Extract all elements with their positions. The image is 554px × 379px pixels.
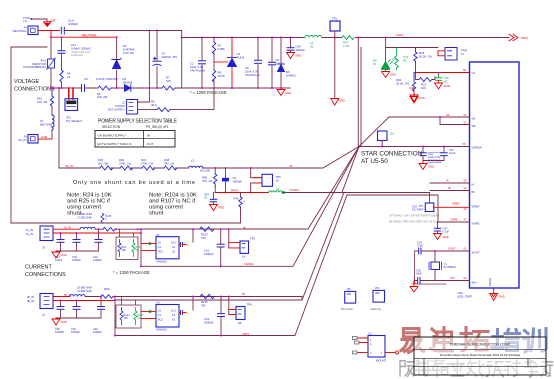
svg-text:C1: C1 — [158, 314, 162, 317]
svg-text:MOUNT: MOUNT — [376, 359, 387, 363]
test point TP5 — [250, 167, 281, 193]
wire star to REFA corner — [342, 147, 359, 193]
svg-text:0: 0 — [106, 218, 108, 221]
capacitor C2 tantalum — [199, 61, 206, 64]
wire R6 path — [138, 88, 214, 110]
svg-text:C2: C2 — [172, 246, 176, 249]
net arrow GNDD — [410, 280, 418, 292]
svg-text:51: 51 — [464, 113, 467, 117]
svg-text:JP3: JP3 — [375, 287, 380, 290]
wire R49 to AGND — [240, 208, 242, 224]
svg-text:1B: 1B — [238, 321, 242, 325]
wire J4 to C14 — [38, 30, 60, 32]
svg-text:VA_IN: VA_IN — [18, 138, 26, 142]
char jia — [541, 359, 552, 376]
net arrow LINE (red) — [44, 22, 52, 27]
wire C44 node — [216, 192, 268, 194]
svg-text:IA: IA — [243, 225, 246, 229]
junction dots PSU — [50, 36, 292, 89]
wire NEUTRAL net — [51, 31, 117, 38]
svg-text:VREF: VREF — [472, 205, 480, 209]
wire VB branch — [440, 117, 470, 125]
svg-text:2: 2 — [370, 343, 372, 346]
svg-text:EXT'al SUPPLY THRU J1: EXT'al SUPPLY THRU J1 — [98, 142, 133, 146]
wire J5 second — [53, 232, 141, 234]
resistor R2 — [212, 42, 215, 54]
svg-text:+5: +5 — [67, 75, 71, 79]
svg-text:100pF: 100pF — [55, 258, 63, 262]
svg-text:TANTALUM: TANTALUM — [190, 69, 205, 73]
svg-text:R49: R49 — [234, 197, 239, 201]
watermark line1 char di — [431, 328, 453, 351]
svg-text:TANTALUM: TANTALUM — [245, 73, 260, 77]
shunt box A R24 R25 — [116, 229, 141, 259]
svg-text:GAINADJ: GAINADJ — [156, 260, 168, 263]
watermark line1 char tuo — [461, 328, 488, 351]
svg-text:Powerline Meter Demo Board Sch: Powerline Meter Demo Board Schematic 652… — [440, 353, 521, 357]
wire U1 output caps — [181, 243, 183, 247]
svg-text:20.0K, 1%: 20.0K, 1% — [396, 82, 409, 86]
svg-text:XIN: XIN — [450, 276, 455, 280]
svg-text:1A: 1A — [242, 255, 246, 259]
svg-text:NC: NC — [444, 80, 448, 84]
svg-text:L8 680 OHM: L8 680 OHM — [77, 286, 92, 290]
jumper JP1 — [65, 88, 82, 123]
wire rail to VIN — [356, 37, 510, 39]
svg-text:VA: VA — [289, 164, 293, 168]
wire JP1 to divider — [58, 88, 60, 168]
svg-text:L6 680 OHM: L6 680 OHM — [77, 212, 92, 216]
wire VA from star — [359, 117, 470, 147]
capacitor C19 — [95, 228, 102, 251]
wire to V1 pin — [416, 72, 470, 74]
wire to band A — [115, 228, 141, 230]
band A left edge — [140, 229, 142, 266]
svg-text:VSPE: VSPE — [472, 222, 480, 226]
svg-text:V3P3: V3P3 — [242, 332, 249, 336]
capacitor C49 — [415, 269, 423, 284]
svg-text:SELECTION: SELECTION — [102, 125, 121, 129]
svg-text:SN_LINE: SN_LINE — [200, 170, 210, 173]
ground C40 — [287, 50, 295, 58]
svg-text:R116: R116 — [104, 288, 110, 291]
wire R50 branch — [214, 168, 216, 193]
svg-text:18.2K, 1%: 18.2K, 1% — [419, 55, 432, 59]
svg-text:Reminder: Reminder — [341, 307, 353, 311]
capacitor C40 — [287, 48, 294, 51]
wire C4T branch — [257, 38, 259, 89]
wire diagonal to IB band bottom — [115, 195, 347, 336]
svg-text:VOLTAGE: VOLTAGE — [14, 79, 39, 85]
svg-text:GAINADJ: GAINADJ — [156, 329, 168, 332]
svg-text:750: 750 — [201, 236, 206, 240]
wire U1 inputs — [141, 244, 156, 251]
ground arrow IC — [490, 294, 498, 301]
jumper JP3 — [371, 287, 385, 311]
svg-text:IB: IB — [448, 186, 451, 190]
inductor L8 — [70, 295, 85, 297]
ground R30 — [410, 95, 418, 102]
resistor R115 — [101, 214, 104, 223]
diode D6 — [278, 64, 285, 72]
resistor R4 — [60, 70, 63, 82]
svg-text:TP1: TP1 — [332, 17, 338, 21]
wire REFA row — [215, 192, 345, 194]
junction rail x52 x59 — [51, 87, 60, 89]
wire cap bottoms B — [56, 317, 101, 319]
capacitor C8 — [269, 62, 276, 65]
svg-text:NEUTRAL: NEUTRAL — [12, 29, 26, 33]
svg-text:A1: A1 — [158, 242, 162, 245]
ground LED — [385, 70, 387, 72]
svg-text:NC: NC — [412, 208, 416, 212]
svg-text:A1: A1 — [158, 310, 162, 313]
svg-text:NC: NC — [403, 59, 407, 63]
svg-text:LINE: LINE — [49, 19, 56, 23]
svg-text:V3P3: V3P3 — [409, 86, 416, 90]
svg-text:GND: GND — [499, 295, 505, 299]
svg-text:PS_SEL(0) uP1: PS_SEL(0) uP1 — [146, 125, 169, 129]
char she2 — [486, 362, 503, 377]
svg-text:VREF: VREF — [417, 207, 424, 211]
char ji — [506, 360, 520, 376]
wire XOUT pin — [428, 250, 470, 252]
svg-text:PS_SELECT: PS_SELECT — [66, 119, 82, 123]
svg-text:1N4148: 1N4148 — [123, 80, 133, 84]
svg-text:0.47uF, 1000VDC: 0.47uF, 1000VDC — [96, 77, 118, 81]
svg-text:0.1uF: 0.1uF — [443, 230, 450, 234]
svg-text:AC1: AC1 — [171, 242, 176, 245]
wire band B top — [113, 297, 302, 301]
wire C2 branch — [201, 38, 203, 89]
svg-text:V1: V1 — [461, 52, 465, 56]
wire C12 branch — [61, 37, 63, 88]
svg-text:NC: NC — [310, 45, 314, 49]
svg-text:55: 55 — [463, 142, 466, 146]
svg-text:IA: IA — [472, 183, 475, 187]
svg-text:4: 4 — [381, 352, 383, 355]
LED D9 (green) — [382, 60, 393, 70]
watermark line1 char yi — [401, 329, 424, 353]
svg-text:J11: J11 — [368, 332, 372, 335]
title block overlay — [414, 337, 546, 375]
svg-text:IA: IA — [446, 179, 449, 183]
svg-text:V3P3: V3P3 — [396, 33, 404, 37]
svg-text:1000pF: 1000pF — [93, 258, 102, 262]
test point TP6 — [228, 296, 252, 325]
svg-text:0.1uF: 0.1uF — [276, 62, 283, 66]
svg-text:VREF: VREF — [452, 202, 460, 206]
inductor L5 — [52, 108, 54, 139]
resistor R46 — [120, 166, 133, 170]
capacitor C9 — [222, 167, 229, 193]
svg-text:V1: V1 — [373, 62, 377, 66]
note R24 — [67, 193, 112, 217]
title block — [414, 337, 546, 375]
svg-text:C2: C2 — [172, 314, 176, 317]
svg-text:61: 61 — [464, 247, 467, 251]
svg-text:20.5K: 20.5K — [218, 74, 225, 78]
svg-text:AC2: AC2 — [158, 251, 163, 254]
svg-text:TP2: TP2 — [250, 237, 256, 241]
capacitor C14 — [61, 27, 64, 34]
resistor R7 — [162, 86, 175, 90]
wire IC ground pin — [493, 288, 495, 293]
wire D2 branch — [116, 37, 118, 88]
varistor RV1 — [23, 58, 56, 70]
wire star vertical pair — [357, 38, 359, 147]
svg-text:CURRENT: CURRENT — [25, 265, 53, 271]
wire LED branch — [386, 38, 438, 62]
svg-text:REFA: REFA — [231, 188, 238, 192]
svg-text:32.768kHz: 32.768kHz — [444, 265, 457, 269]
svg-text:1000pF: 1000pF — [233, 180, 243, 184]
annotation box left — [11, 47, 47, 223]
inductor L4 (NC, green) — [304, 35, 323, 37]
svg-text:AUV331MBB1X10: AUV331MBB1X10 — [23, 65, 46, 69]
svg-text:VA: VA — [446, 113, 450, 117]
svg-text:ON BOARD SUPPLY: ON BOARD SUPPLY — [98, 134, 126, 138]
svg-text:6521-TQFP: 6521-TQFP — [458, 295, 473, 299]
resistor R116 — [101, 295, 113, 299]
wire star vertical 2 — [360, 48, 362, 147]
svg-text:TP: TP — [23, 20, 27, 24]
capacitor C26 (green NC) — [435, 73, 441, 80]
wire band A feedback vertical — [192, 229, 194, 242]
svg-text:1N4001: 1N4001 — [286, 74, 296, 78]
resistor R79 (NC, green) — [342, 36, 354, 40]
svg-text:1000pF: 1000pF — [68, 22, 78, 26]
svg-text:V1: V1 — [472, 71, 476, 75]
wire J5 top — [53, 228, 80, 230]
wire C8 branch — [271, 38, 273, 89]
svg-text:Only one shunt can be used at: Only one shunt can be used at a time — [73, 180, 195, 186]
svg-text:GND: GND — [285, 91, 291, 95]
svg-text:VB: VB — [472, 124, 476, 128]
svg-text:GNDA: GNDA — [488, 278, 492, 286]
char he — [432, 360, 448, 376]
svg-text:XOUT: XOUT — [472, 251, 481, 255]
svg-text:J5: J5 — [42, 246, 45, 250]
svg-text:shunt: shunt — [149, 211, 164, 217]
char zhuan — [524, 359, 537, 377]
ground symbol mid — [331, 99, 339, 106]
svg-text:750, 1%: 750, 1% — [202, 179, 213, 183]
resistor R106 — [200, 294, 214, 298]
svg-text:6.98K: 6.98K — [218, 47, 225, 51]
resistor R22 — [103, 227, 115, 231]
capacitor C46 — [98, 296, 105, 319]
svg-text:100, 2W: 100, 2W — [97, 95, 108, 99]
svg-text:33pF: 33pF — [416, 272, 422, 276]
svg-text:261, 1W: 261, 1W — [98, 161, 109, 165]
op-amp U3 — [156, 301, 179, 332]
svg-text:49.9: 49.9 — [151, 103, 157, 107]
svg-text:390, 1%: 390, 1% — [164, 161, 175, 165]
capacitor C48 — [415, 241, 429, 255]
wire C14 to corner x181 — [64, 31, 181, 89]
wire bottom PSU rail — [51, 87, 290, 89]
capacitor C10 — [217, 228, 224, 267]
svg-text:10K: 10K — [421, 86, 426, 90]
wire J6 to L5 — [38, 138, 52, 140]
net arrow VIN — [509, 34, 518, 41]
svg-text:L9: L9 — [276, 187, 279, 191]
zener D2 — [112, 58, 121, 68]
resistor R103 — [200, 227, 214, 231]
resistor R49 — [234, 193, 246, 209]
capacitor C36 — [57, 300, 64, 319]
svg-text:750: 750 — [201, 304, 206, 308]
shunt box B R104 R107 — [116, 297, 144, 329]
svg-text:V3P3: V3P3 — [521, 36, 529, 40]
svg-text:1000pF: 1000pF — [204, 252, 214, 256]
wire J1 feed vertical — [138, 31, 150, 103]
svg-text:100, 2W: 100, 2W — [37, 100, 48, 104]
op-amp U1 — [156, 233, 179, 263]
net arrow V3P3 top-right — [410, 90, 418, 103]
wire after L8 — [85, 296, 101, 298]
svg-text:1000PF: 1000PF — [55, 330, 65, 334]
svg-text:TP6: TP6 — [247, 303, 253, 307]
svg-text:3: 3 — [370, 352, 372, 355]
char xian — [467, 360, 484, 376]
jumper JP2 — [341, 288, 356, 311]
svg-text:6.8V 1W: 6.8V 1W — [123, 51, 134, 55]
svg-text:NC: NC — [136, 249, 140, 252]
svg-text:* = 1206 PACKAGE: * = 1206 PACKAGE — [190, 90, 227, 95]
svg-text:100: 100 — [166, 79, 171, 83]
svg-text:1000pF: 1000pF — [71, 330, 80, 334]
svg-text:JP2: JP2 — [347, 288, 352, 291]
connector J5 — [26, 226, 53, 250]
svg-text:IB: IB — [242, 292, 245, 296]
svg-text:IA_IN': IA_IN' — [26, 232, 34, 236]
wire divider to star — [215, 147, 359, 169]
capacitor C47 — [434, 221, 440, 231]
svg-text:GND: GND — [295, 54, 301, 58]
char she — [400, 361, 414, 377]
resistor R10 — [50, 88, 53, 108]
svg-text:VA_IN: VA_IN — [65, 164, 73, 168]
svg-text:54: 54 — [464, 179, 467, 183]
svg-text:A2: A2 — [172, 319, 176, 322]
wire regulator rail — [182, 37, 304, 39]
wire U3 inputs — [141, 312, 156, 319]
connector J1 — [108, 100, 138, 115]
wire VSPSA from star — [359, 146, 470, 148]
svg-text:GND: GND — [444, 84, 450, 88]
wire star diagonal to IA band — [141, 147, 359, 230]
wire AGND y223 — [11, 222, 241, 224]
ground channel B — [52, 318, 60, 325]
watermark line1 char xun — [524, 329, 547, 353]
inductor L2 — [189, 166, 203, 168]
svg-text:GND: GND — [218, 206, 224, 210]
svg-text:C1: C1 — [158, 246, 162, 249]
svg-text:CONNECTIONS: CONNECTIONS — [14, 87, 55, 93]
svg-text:1A: 1A — [276, 179, 280, 183]
capacitor C37 — [441, 146, 447, 161]
table POWER SUPPLY SELECTION — [95, 119, 178, 148]
wire IA pin — [430, 182, 470, 184]
svg-text:1206/wire: 1206/wire — [71, 53, 84, 57]
inductor L9 (green) — [269, 191, 283, 193]
wire VSPE pin — [438, 221, 470, 223]
wire U3 output caps — [181, 311, 183, 315]
svg-text:IB: IB — [472, 190, 475, 194]
watermark line1 char pei — [492, 330, 520, 351]
resistor R8 — [212, 70, 215, 82]
ground PSU rail — [277, 88, 285, 96]
svg-text:VSPSA: VSPSA — [472, 146, 482, 150]
svg-text:TERIDIAN SEMICONDUCTOR CORP.: TERIDIAN SEMICONDUCTOR CORP. — [449, 343, 511, 347]
svg-text:10K: 10K — [122, 249, 127, 252]
capacitor C5 tantalum — [255, 60, 262, 63]
svg-text:J7: J7 — [42, 313, 45, 317]
svg-text:VGNDA: VGNDA — [244, 262, 254, 266]
wire divider row — [59, 167, 215, 169]
band B left edge — [114, 297, 116, 336]
svg-text:VGNDA: VGNDA — [289, 188, 299, 192]
resistor R50 — [214, 174, 217, 187]
wire after L6 — [95, 228, 103, 230]
test point TP41 — [23, 16, 33, 24]
resistor R47 — [142, 166, 155, 170]
svg-text:R29: R29 — [392, 58, 398, 62]
svg-text:1000pF: 1000pF — [296, 48, 306, 52]
ground C26 — [435, 80, 443, 89]
svg-text:GND: GND — [443, 235, 449, 239]
resistor R6 — [157, 108, 170, 112]
svg-text:* = 1206 PACKAGE: * = 1206 PACKAGE — [113, 270, 150, 275]
svg-text:L2: L2 — [191, 159, 195, 163]
svg-text:POWER SUPPLY SELECTION TABLE: POWER SUPPLY SELECTION TABLE — [98, 119, 178, 125]
svg-text:NEUTRAL: NEUTRAL — [82, 33, 97, 37]
shunt regulator U2 TL431 — [214, 38, 237, 89]
svg-text:53: 53 — [464, 186, 467, 190]
svg-text:IB_IN': IB_IN' — [27, 299, 35, 303]
svg-text:TL431: TL431 — [237, 56, 245, 60]
svg-text:K: K — [187, 311, 189, 315]
svg-text:274K, 1%: 274K, 1% — [119, 161, 132, 165]
wire R2 R8 branch — [213, 38, 215, 89]
crystal section box — [415, 252, 447, 284]
svg-text:= NC: = NC — [343, 44, 349, 48]
inductor L6 — [80, 227, 95, 229]
svg-text:IN: IN — [147, 134, 150, 138]
capacitor C34 — [218, 296, 225, 337]
svg-text:OUT: OUT — [147, 142, 154, 146]
wire IB pin — [430, 190, 470, 192]
wire REFA to VREF TP — [345, 193, 430, 204]
svg-text:680 OHM: 680 OHM — [40, 123, 53, 127]
watermark line2 — [400, 359, 553, 377]
wire D6 branch — [280, 38, 282, 89]
capacitor C4 electrolytic — [153, 57, 161, 65]
svg-text:270K, 1%: 270K, 1% — [141, 161, 154, 165]
diode D4 — [125, 85, 131, 92]
svg-text:BETWEEN VREF AND VREF GND U5-3: BETWEEN VREF AND VREF GND U5-32 — [389, 221, 436, 224]
wire RV1 branch — [50, 37, 52, 88]
svg-text:J10: J10 — [390, 132, 395, 136]
wire rail after L4 — [323, 37, 342, 39]
capacitor C12 — [58, 51, 65, 54]
svg-text:47: 47 — [464, 218, 467, 222]
svg-text:Warning: Warning — [371, 307, 382, 311]
wire R28 bottom node — [416, 63, 423, 73]
svg-text:LINE: LINE — [41, 135, 47, 139]
